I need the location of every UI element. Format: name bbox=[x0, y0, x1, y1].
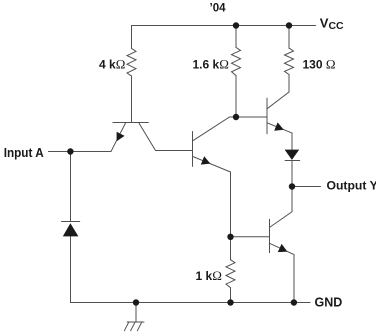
svg-text:4 kΩ: 4 kΩ bbox=[99, 57, 125, 72]
ground symbol bar bbox=[127, 321, 144, 323]
junction dot GND / ground symbol bbox=[133, 299, 139, 305]
junction dot top rail / 130 bbox=[286, 22, 292, 28]
wire D2 to output node bbox=[291, 161, 293, 187]
svg-text:Input A: Input A bbox=[4, 146, 44, 160]
transistor Q3 emitter arrow bbox=[274, 122, 284, 130]
wire 4k top lead bbox=[131, 26, 133, 49]
svg-text:130 Ω: 130 Ω bbox=[303, 57, 336, 72]
wire 1.6k bottom lead to node bbox=[235, 76, 237, 118]
transistor Q4 emitter bbox=[270, 243, 294, 302]
wire node to Q3 base bbox=[236, 116, 267, 118]
transistor Q2 emitter arrow bbox=[201, 156, 211, 164]
wire GND rail bbox=[71, 302, 311, 304]
wire 1.6k top lead bbox=[235, 26, 237, 48]
wire Input A lead bbox=[49, 151, 112, 153]
transistor Q4 bar bbox=[269, 219, 271, 252]
resistor 4 kOhm bbox=[127, 48, 136, 76]
wire 4k bottom lead to Q1 base bbox=[131, 76, 133, 123]
wire Q3 emitter to diode D2 bbox=[291, 133, 293, 150]
resistor 1.6 kOhm bbox=[232, 47, 241, 75]
wire 1k top lead bbox=[230, 237, 232, 260]
junction dot top rail / 1.6k bbox=[233, 22, 239, 28]
transistor Q1 collector + wire to Q2 base bbox=[139, 123, 193, 151]
ground symbol hatch 1 bbox=[124, 322, 128, 331]
wire 130 top lead bbox=[288, 26, 290, 49]
junction dot Q2 collector node bbox=[233, 114, 239, 120]
transistor Q1 emitter bbox=[111, 123, 126, 152]
junction dot input node bbox=[67, 148, 73, 154]
transistor Q2 emitter wire down to node bbox=[193, 157, 231, 237]
svg-text:1.6 kΩ: 1.6 kΩ bbox=[193, 57, 229, 72]
ground symbol hatch 3 bbox=[137, 322, 141, 331]
wire Vcc top rail bbox=[132, 25, 316, 27]
resistor 1 kOhm bbox=[226, 260, 235, 288]
junction dot Q2 emitter / Q4 base / 1k node bbox=[227, 234, 233, 240]
transistor Q2 collector wire to node bbox=[193, 117, 236, 141]
transistor Q3 collector bbox=[267, 75, 289, 109]
junction dot GND / 1k bbox=[227, 299, 233, 305]
junction dot GND / Q4 emitter bbox=[291, 299, 297, 305]
svg-text:’04: ’04 bbox=[210, 3, 227, 15]
wire output node down to Q4 collector bbox=[270, 187, 292, 228]
svg-text:GND: GND bbox=[315, 296, 343, 310]
svg-text:VCC: VCC bbox=[320, 15, 344, 32]
wire D1 anode down to GND rail bbox=[70, 236, 72, 302]
junction dot output node bbox=[289, 183, 295, 189]
resistor 130 Ohm bbox=[285, 48, 294, 74]
diode D1 triangle bbox=[63, 223, 79, 236]
transistor Q1 emitter arrow bbox=[117, 132, 125, 142]
transistor Q3 emitter bbox=[267, 123, 292, 133]
wire 1k bottom lead to GND rail bbox=[230, 288, 232, 303]
wire output lead bbox=[292, 186, 320, 188]
ground symbol stem bbox=[135, 303, 137, 323]
wire node to Q4 base bbox=[231, 236, 270, 238]
ground symbol hatch 2 bbox=[131, 322, 135, 331]
wire input node down to diode D1 bbox=[70, 152, 72, 222]
diode D2 cathode bar bbox=[285, 160, 299, 162]
transistor Q1 base bar bbox=[113, 122, 148, 124]
transistor Q2 bar bbox=[192, 132, 194, 167]
diode D1 cathode bar bbox=[62, 221, 80, 223]
diode D2 triangle bbox=[285, 150, 300, 160]
svg-text:1 kΩ: 1 kΩ bbox=[196, 268, 222, 283]
svg-text:Output Y: Output Y bbox=[327, 179, 376, 193]
transistor Q4 emitter arrow bbox=[278, 244, 288, 252]
transistor Q3 bar bbox=[266, 98, 268, 133]
